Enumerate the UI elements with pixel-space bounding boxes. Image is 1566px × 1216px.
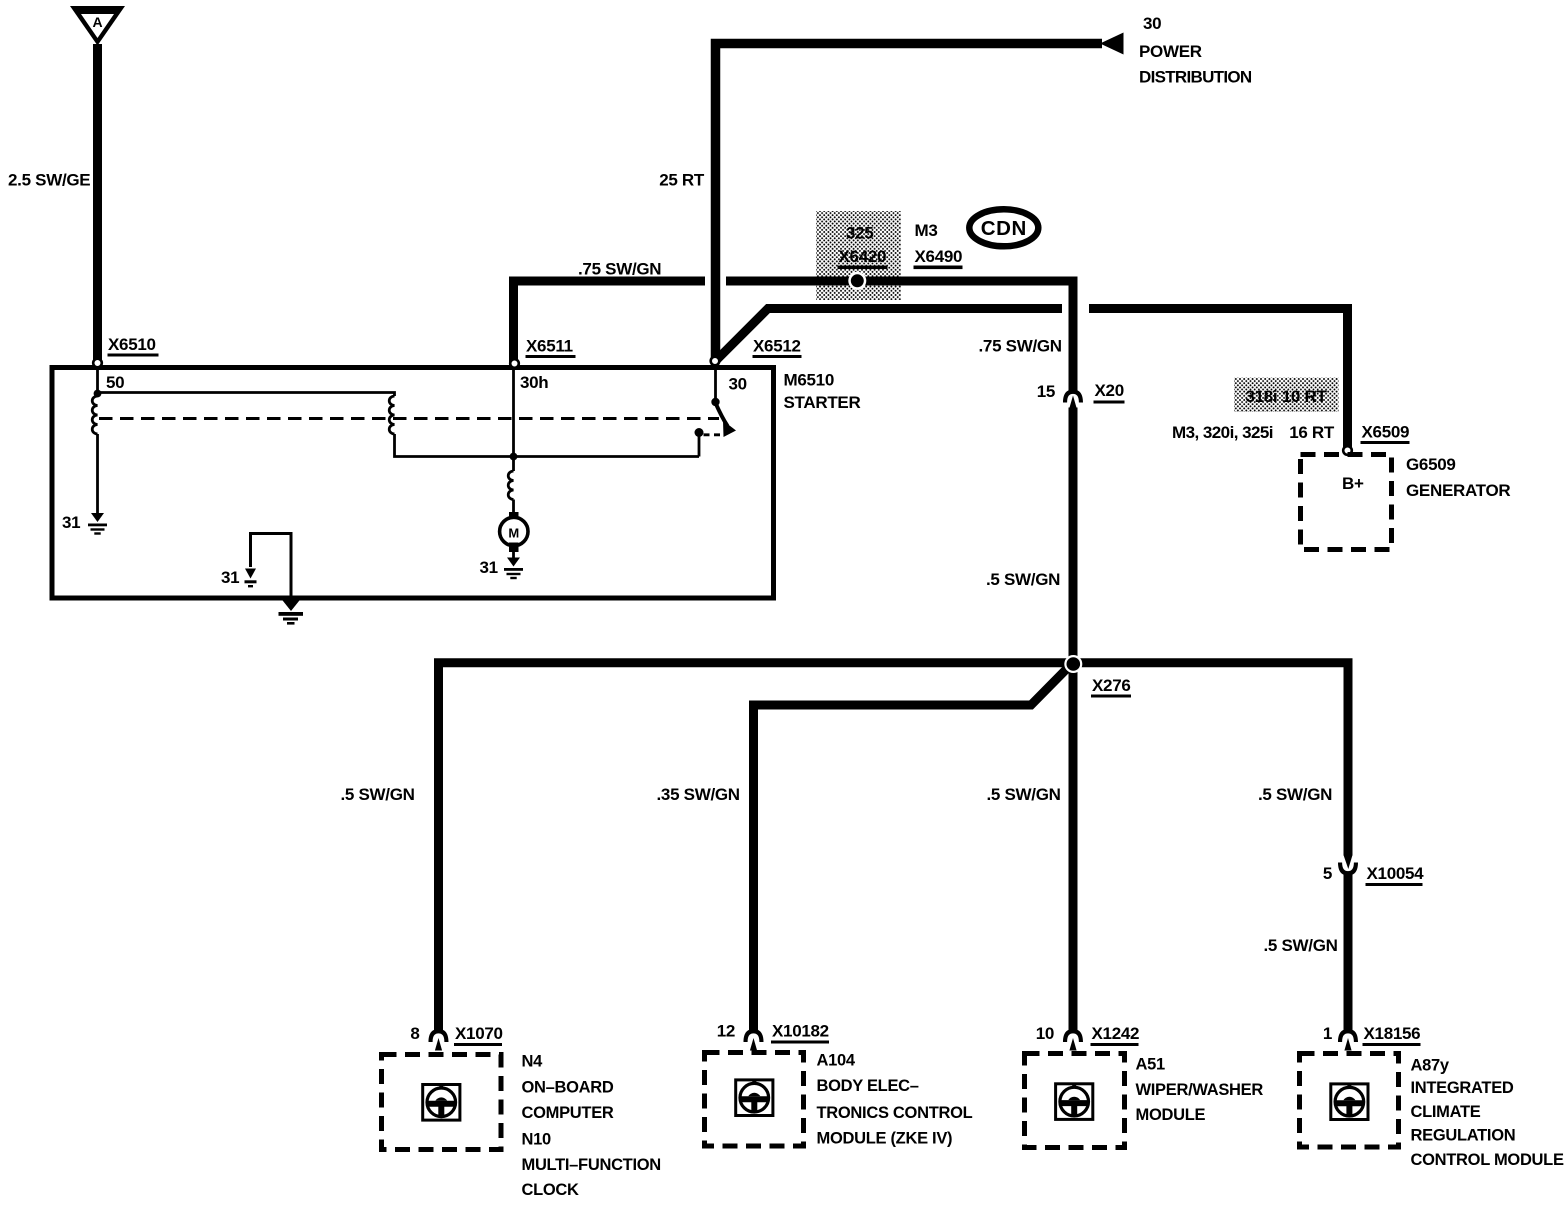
svg-text:X20: X20 bbox=[1095, 381, 1124, 400]
node label X276 bbox=[1091, 676, 1131, 698]
pin label 5 bbox=[1323, 864, 1332, 883]
svg-text:CLOCK: CLOCK bbox=[522, 1181, 580, 1199]
svg-text:N4: N4 bbox=[522, 1053, 544, 1071]
switch pivot dot bbox=[711, 398, 719, 406]
svg-text:X6420: X6420 bbox=[839, 247, 887, 266]
svg-text:MODULE (ZKE IV): MODULE (ZKE IV) bbox=[817, 1130, 953, 1148]
connector circle X6512 bbox=[711, 357, 720, 366]
value label .75 SW/GN top bbox=[578, 260, 661, 279]
svg-text:X6510: X6510 bbox=[108, 335, 156, 354]
value label .75 SW/GN mid bbox=[979, 337, 1062, 356]
label B+ bbox=[1342, 474, 1364, 493]
svg-text:G6509: G6509 bbox=[1406, 455, 1456, 474]
label 318i 10 RT bbox=[1245, 387, 1327, 406]
svg-text:ON–BOARD: ON–BOARD bbox=[522, 1079, 614, 1097]
svg-text:CLIMATE: CLIMATE bbox=[1411, 1103, 1481, 1121]
svg-text:MODULE: MODULE bbox=[1136, 1106, 1206, 1124]
crossover gap of .75 SW/GN wire at 25 RT wire bbox=[705, 276, 726, 287]
connector label X20 bbox=[1094, 381, 1125, 404]
svg-text:15: 15 bbox=[1037, 382, 1055, 401]
pin label 30 bbox=[729, 375, 747, 394]
svg-text:DISTRIBUTION: DISTRIBUTION bbox=[1139, 68, 1252, 87]
svg-text:X6509: X6509 bbox=[1362, 423, 1410, 442]
label M3, 320i, 325i bbox=[1172, 423, 1273, 442]
connector X10054 pin taper and fork bbox=[1338, 855, 1358, 876]
module A104 ZKE box bbox=[705, 1053, 804, 1147]
svg-text:M3: M3 bbox=[915, 221, 938, 240]
connector label X6510 bbox=[108, 335, 159, 357]
value label .5 SW/GN branch 3 bbox=[987, 785, 1061, 804]
component label N4 N10 block bbox=[522, 1053, 661, 1200]
value label .5 SW/GN branch 1 bbox=[341, 785, 415, 804]
svg-text:N10: N10 bbox=[522, 1131, 551, 1149]
svg-text:X1242: X1242 bbox=[1092, 1024, 1140, 1043]
internal ground bracket wire bbox=[251, 534, 292, 597]
connector circle X6509 bbox=[1343, 446, 1352, 455]
connector label X6509 bbox=[1361, 423, 1410, 445]
svg-text:31: 31 bbox=[62, 513, 80, 532]
svg-text:TRONICS CONTROL: TRONICS CONTROL bbox=[817, 1104, 973, 1122]
pin label 15 bbox=[1037, 382, 1055, 401]
ground label 31 left bbox=[62, 513, 80, 532]
svg-text:12: 12 bbox=[717, 1022, 735, 1041]
wire .5 SW/GN from X10054 down to X18156 bbox=[1344, 875, 1353, 1031]
svg-text:WIPER/WASHER: WIPER/WASHER bbox=[1136, 1081, 1264, 1099]
arrowhead to 30 POWER DISTRIBUTION bbox=[1100, 33, 1124, 55]
svg-text:8: 8 bbox=[410, 1024, 419, 1043]
module N4 on-board computer box bbox=[382, 1055, 502, 1150]
svg-text:.5 SW/GN: .5 SW/GN bbox=[1264, 936, 1338, 955]
wire main distribution branch X1070 to X10054 bbox=[439, 663, 1349, 1030]
mechanical linkage dashed line bbox=[99, 417, 719, 420]
solenoid coil at terminal 50 bbox=[92, 396, 97, 434]
svg-text:POWER: POWER bbox=[1139, 42, 1202, 61]
wire .35 SW/GN branch to X10182 with diagonal into X276 bbox=[754, 666, 1070, 1030]
switch lower contact lead bbox=[698, 433, 701, 457]
svg-text:31: 31 bbox=[221, 568, 239, 587]
pin label 12 bbox=[717, 1022, 735, 1041]
value label .5 SW/GN riser bbox=[986, 570, 1060, 589]
svg-text:A51: A51 bbox=[1136, 1055, 1165, 1073]
svg-text:X10182: X10182 bbox=[772, 1022, 829, 1041]
connector label X1242 bbox=[1091, 1024, 1140, 1046]
switch contact 30 lead bbox=[714, 370, 717, 399]
pin label 50 bbox=[106, 373, 124, 392]
svg-text:M: M bbox=[508, 526, 519, 541]
svg-text:1: 1 bbox=[1323, 1024, 1332, 1043]
svg-text:.5 SW/GN: .5 SW/GN bbox=[1258, 785, 1332, 804]
pin label 30h bbox=[520, 373, 548, 392]
shaded highlight box 318i 10 RT bbox=[1234, 378, 1339, 413]
svg-text:.75 SW/GN: .75 SW/GN bbox=[979, 337, 1062, 356]
svg-text:325: 325 bbox=[846, 224, 873, 243]
wire 30h down to motor coil bbox=[512, 457, 515, 472]
steering wheel icon A51 bbox=[1056, 1083, 1093, 1120]
component label M6510 STARTER bbox=[784, 371, 861, 413]
value label .5 SW/GN below X10054 bbox=[1264, 936, 1338, 955]
svg-text:10: 10 bbox=[1036, 1024, 1054, 1043]
svg-text:.5 SW/GN: .5 SW/GN bbox=[986, 570, 1060, 589]
module A87y climate box bbox=[1300, 1054, 1399, 1148]
steering wheel icon N4 bbox=[423, 1083, 460, 1120]
svg-text:X6511: X6511 bbox=[526, 337, 573, 356]
dashed link contact to arm bbox=[704, 433, 722, 436]
svg-text:CONTROL MODULE: CONTROL MODULE bbox=[1411, 1151, 1564, 1169]
relay armature coil right bbox=[389, 396, 394, 434]
component label A51 block bbox=[1136, 1055, 1264, 1124]
svg-text:30: 30 bbox=[729, 375, 747, 394]
label M3 X6490 bbox=[914, 221, 963, 269]
node dot terminal 50 bbox=[94, 390, 102, 398]
antenna symbol A bbox=[70, 6, 125, 46]
svg-text:X276: X276 bbox=[1092, 676, 1131, 695]
connector X18156 fork and pin 1 bbox=[1338, 1029, 1358, 1051]
ground label 31 motor bbox=[480, 558, 498, 577]
junction dot at X6420 bbox=[848, 272, 866, 290]
pin label 10 bbox=[1036, 1024, 1054, 1043]
component label G6509 GENERATOR bbox=[1406, 455, 1510, 500]
connector X10182 fork and pin 12 bbox=[744, 1029, 764, 1051]
terminal 50 lead inside starter bbox=[96, 370, 99, 393]
steering wheel icon A104 bbox=[736, 1079, 773, 1116]
svg-text:X10054: X10054 bbox=[1367, 864, 1425, 883]
value label .35 SW/GN branch 2 bbox=[657, 785, 740, 804]
pin label 1 bbox=[1323, 1024, 1332, 1043]
svg-text:INTEGRATED: INTEGRATED bbox=[1411, 1079, 1514, 1097]
value label 25 RT bbox=[659, 171, 705, 190]
svg-text:CDN: CDN bbox=[981, 217, 1027, 240]
connector X1242 fork and pin 10 bbox=[1063, 1029, 1083, 1051]
svg-text:A104: A104 bbox=[817, 1052, 856, 1070]
connector label X10182 bbox=[771, 1022, 829, 1044]
value label .5 SW/GN branch 4 bbox=[1258, 785, 1332, 804]
svg-text:25 RT: 25 RT bbox=[659, 171, 705, 190]
connector X20 fork and pin bbox=[1063, 390, 1083, 409]
pin label 8 bbox=[410, 1024, 419, 1043]
shaded highlight box 325 X6420 bbox=[816, 211, 901, 300]
connector label X6511 bbox=[526, 337, 576, 359]
connector circle X6510 bbox=[93, 359, 102, 368]
ground 31 left bbox=[88, 513, 107, 535]
svg-text:M3, 320i, 325i: M3, 320i, 325i bbox=[1172, 423, 1273, 442]
svg-text:MULTI–FUNCTION: MULTI–FUNCTION bbox=[522, 1156, 661, 1174]
svg-text:X6490: X6490 bbox=[915, 247, 963, 266]
wire 16 RT from X6512 via diagonal to generator X6509 bbox=[716, 309, 1348, 449]
crossover gap of 16 RT wire at X20 riser bbox=[1062, 300, 1089, 317]
svg-text:318i 10 RT: 318i 10 RT bbox=[1245, 387, 1327, 406]
wire motor to ground 31 bbox=[512, 552, 515, 558]
svg-text:X6512: X6512 bbox=[753, 337, 801, 356]
ground 31 under motor bbox=[504, 558, 523, 580]
svg-text:2.5 SW/GE: 2.5 SW/GE bbox=[8, 171, 90, 190]
CDN oval bbox=[969, 209, 1038, 246]
connector label X6512 bbox=[753, 337, 802, 359]
svg-text:STARTER: STARTER bbox=[784, 393, 861, 412]
svg-text:BODY ELEC–: BODY ELEC– bbox=[817, 1077, 919, 1095]
module A51 wiper washer box bbox=[1025, 1054, 1125, 1148]
ground label 31 bracket bbox=[221, 568, 239, 587]
svg-text:REGULATION: REGULATION bbox=[1411, 1127, 1516, 1145]
wire 25 RT from X6512 up to power distribution arrow bbox=[716, 44, 1103, 362]
starter unit M6510 box bbox=[52, 368, 774, 599]
svg-text:.5 SW/GN: .5 SW/GN bbox=[987, 785, 1061, 804]
svg-text:16 RT: 16 RT bbox=[1289, 423, 1335, 442]
starter motor M bbox=[500, 512, 528, 552]
connector label X10054 bbox=[1366, 864, 1425, 886]
component label A104 block bbox=[817, 1052, 973, 1148]
steering wheel icon A87y bbox=[1331, 1083, 1368, 1120]
value label 16 RT bbox=[1289, 423, 1335, 442]
ground 31 bracket bbox=[245, 569, 257, 588]
svg-text:30h: 30h bbox=[520, 373, 548, 392]
connector label X1070 bbox=[454, 1024, 503, 1046]
switch arm with tip bbox=[716, 403, 737, 437]
svg-text:X1070: X1070 bbox=[455, 1024, 503, 1043]
svg-text:50: 50 bbox=[106, 373, 124, 392]
svg-text:.75 SW/GN: .75 SW/GN bbox=[578, 260, 661, 279]
svg-text:31: 31 bbox=[480, 558, 498, 577]
thin link wire node 50 to right coil bbox=[98, 393, 395, 397]
connector circle X6511 bbox=[510, 359, 519, 368]
switch lower contact dot bbox=[695, 428, 704, 437]
terminal 30h lead bbox=[512, 370, 515, 457]
svg-text:A: A bbox=[92, 14, 102, 30]
wire 2.5 SW/GE antenna lead down to X6510 bbox=[93, 44, 102, 363]
svg-text:.35 SW/GN: .35 SW/GN bbox=[657, 785, 740, 804]
chassis ground below starter box bbox=[279, 599, 304, 625]
component label A87y block bbox=[1411, 1056, 1564, 1169]
svg-text:COMPUTER: COMPUTER bbox=[522, 1104, 614, 1122]
svg-text:M6510: M6510 bbox=[784, 371, 834, 390]
wire .5 SW/GN X20 down to X276 junction bbox=[1069, 408, 1078, 1031]
svg-text:B+: B+ bbox=[1342, 474, 1364, 493]
wire from coil to ground 31 left bbox=[96, 434, 99, 514]
starter motor winding coil bbox=[508, 471, 513, 500]
generator G6509 box bbox=[1301, 455, 1392, 550]
connector X1070 fork and pin 8 bbox=[429, 1029, 449, 1051]
svg-text:.5 SW/GN: .5 SW/GN bbox=[341, 785, 415, 804]
junction dot 30h rail bbox=[510, 453, 518, 461]
wire right coil down to contact rail bbox=[395, 434, 700, 457]
svg-text:30: 30 bbox=[1143, 14, 1161, 33]
label 325 X6420 bbox=[838, 224, 888, 270]
net label 30 POWER DISTRIBUTION bbox=[1139, 14, 1252, 87]
wire coil to motor bbox=[512, 500, 515, 515]
svg-text:GENERATOR: GENERATOR bbox=[1406, 481, 1510, 500]
svg-text:X18156: X18156 bbox=[1364, 1024, 1421, 1043]
value label 2.5 SW/GE bbox=[8, 171, 90, 190]
connector label X18156 bbox=[1363, 1024, 1421, 1046]
node X276 junction dot bbox=[1064, 655, 1082, 673]
svg-text:A87y: A87y bbox=[1411, 1056, 1450, 1074]
wire .75 SW/GN from X6511 up and right to X20 riser bbox=[514, 281, 1074, 391]
svg-text:5: 5 bbox=[1323, 864, 1332, 883]
